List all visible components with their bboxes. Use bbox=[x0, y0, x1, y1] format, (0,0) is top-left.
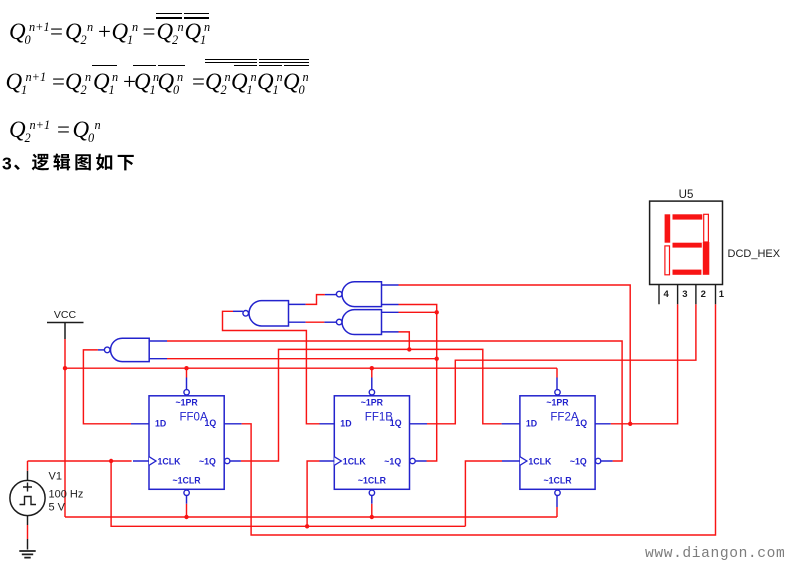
wire U4 input stubs bbox=[382, 312, 399, 332]
wire FF0A Q to U5 pin 1 (node 0Q) bbox=[242, 304, 716, 535]
svg-text:~1CLR: ~1CLR bbox=[173, 476, 202, 486]
junction ~1Q net at U4 input bbox=[435, 310, 439, 314]
equation 2: Q1^n+1 = Q2^n NOT-Q1^n + NOT-Q1^n NOT-Q0^n = big NAND form bbox=[0, 0, 786, 1]
wire FF2A clear riser bbox=[556, 507, 558, 517]
svg-text:DCD_HEX: DCD_HEX bbox=[728, 248, 781, 260]
svg-text:1CLK: 1CLK bbox=[343, 456, 367, 466]
wire FF2A Q to U5 pin 3 (node 2Q) bbox=[611, 304, 678, 424]
flip-flop FF1B bbox=[334, 390, 415, 496]
svg-text:~1PR: ~1PR bbox=[175, 398, 198, 408]
svg-text:5 V: 5 V bbox=[49, 502, 66, 514]
segment E (off outline) bbox=[665, 246, 670, 275]
voltage source V1 100 Hz 5 V bbox=[10, 471, 83, 550]
junction FF1B clear bbox=[370, 515, 374, 519]
svg-text:1Q: 1Q bbox=[390, 418, 402, 428]
wire U3 input B / U4 input A / ~1Q net vertical bbox=[399, 305, 437, 462]
svg-text:1Q: 1Q bbox=[205, 418, 217, 428]
junction FF0A preset bbox=[184, 366, 188, 370]
svg-text:1: 1 bbox=[719, 289, 725, 300]
junction 2Q bbox=[628, 422, 632, 426]
svg-text:2: 2 bbox=[701, 289, 706, 300]
svg-text:VCC: VCC bbox=[54, 309, 77, 321]
svg-text:4: 4 bbox=[664, 289, 670, 300]
segment A (on) bbox=[673, 214, 703, 219]
wire clock rail bbox=[111, 461, 502, 526]
wire U2 input stubs bbox=[289, 304, 306, 322]
svg-text:1CLK: 1CLK bbox=[158, 456, 182, 466]
NAND gate U4 (bottom right) bbox=[336, 310, 381, 335]
svg-text:~1CLR: ~1CLR bbox=[543, 476, 572, 486]
wire FF1B pin stubs bbox=[320, 378, 428, 504]
svg-text:1CLK: 1CLK bbox=[528, 456, 552, 466]
flip-flop FF0A bbox=[149, 390, 230, 496]
wire U2 input A from U3 output bbox=[306, 295, 325, 305]
wire V1 to FF0A clock bbox=[28, 460, 132, 462]
junction FF0A clear bbox=[184, 515, 188, 519]
wire FF1B clear riser bbox=[371, 504, 373, 517]
ground bbox=[19, 551, 35, 558]
junction ~0Q net bbox=[407, 347, 411, 351]
seven-segment display U5 DCD_HEX bbox=[650, 189, 781, 285]
power symbol VCC bbox=[47, 309, 84, 339]
junction VCC rail bbox=[63, 366, 67, 370]
segment C (on) bbox=[703, 242, 710, 275]
svg-text:~1CLR: ~1CLR bbox=[358, 476, 387, 486]
wire U1 output to FF0A D bbox=[83, 350, 131, 424]
wire U1 input rail A (from FF2A ~Q) bbox=[167, 341, 622, 461]
U5 pin stubs and numbers bbox=[659, 285, 725, 305]
NAND gate U3 (mirrored, inputs 2Q and ~2Q net) bbox=[336, 282, 381, 307]
svg-text:V1: V1 bbox=[49, 471, 62, 483]
segment D (on) bbox=[673, 270, 702, 275]
svg-text:~1Q: ~1Q bbox=[199, 456, 216, 466]
wire U2 input B from U4 output bbox=[306, 321, 325, 323]
equation 3: Q2^n+1 = Q0^n bbox=[0, 0, 786, 1]
svg-text:~1Q: ~1Q bbox=[384, 456, 401, 466]
wire U2 output stub bbox=[233, 310, 243, 312]
wire U3 input stubs bbox=[382, 285, 399, 305]
segment B (off outline) bbox=[704, 214, 709, 242]
wire FF1B preset riser bbox=[371, 368, 373, 377]
segment F (on) bbox=[665, 214, 671, 242]
wire U2 output to FF1B D bbox=[223, 311, 320, 424]
segment G (on) bbox=[673, 243, 702, 248]
wire U1 input stubs bbox=[149, 341, 167, 359]
svg-text:1D: 1D bbox=[340, 418, 351, 428]
watermark www.diangon.com bbox=[645, 546, 785, 562]
wire U4 input B to ~0Q net bbox=[399, 332, 410, 350]
svg-text:~1Q: ~1Q bbox=[570, 456, 587, 466]
svg-text:1D: 1D bbox=[526, 418, 537, 428]
NAND gate U2 (mirrored, output left, feeds FF1B D) bbox=[243, 301, 289, 326]
svg-text:U5: U5 bbox=[679, 189, 694, 201]
junction ~1Q net at U1 input rail bbox=[435, 357, 439, 361]
junction clock riser bbox=[109, 459, 113, 463]
wire U3 input A to FF2A Q (node 2Q) bbox=[399, 285, 631, 424]
wire V1 top lead bbox=[27, 461, 29, 539]
svg-text:~1PR: ~1PR bbox=[361, 398, 384, 408]
wire FF2A pin stubs bbox=[502, 378, 613, 508]
NAND gate U1 (mirrored, output left to FF0A D) bbox=[104, 338, 149, 361]
flip-flop FF2A bbox=[520, 390, 601, 496]
svg-text:1D: 1D bbox=[155, 418, 166, 428]
svg-text:100 Hz: 100 Hz bbox=[49, 489, 84, 501]
svg-text:~1PR: ~1PR bbox=[546, 398, 569, 408]
svg-text:1Q: 1Q bbox=[575, 418, 587, 428]
wire FF1B Q to U5 pin 2 (node 1Q) bbox=[427, 304, 696, 424]
svg-text:3: 3 bbox=[682, 289, 687, 300]
junction clock FF1B bbox=[305, 524, 309, 528]
heading: 3. logic diagram follows (Chinese) bbox=[0, 0, 160, 180]
wire ~0Q net: FF0A ~Q to FF2A D bbox=[241, 349, 502, 461]
wire FF0A preset riser bbox=[186, 368, 188, 377]
junction FF1B preset bbox=[370, 366, 374, 370]
equation 1: Q0^n+1 = Q2^n + Q1^n = NOT(NOT-Q2^n * NOT-Q1^n) bbox=[0, 0, 786, 1]
wire ~CLR rail (bottom, to flip-flop clear pins) bbox=[65, 516, 557, 518]
wire FF0A pin stubs bbox=[131, 378, 242, 504]
wire FF0A clear riser bbox=[186, 504, 188, 517]
wire VCC stem to CLR rail bbox=[64, 339, 66, 517]
wire U1 output stub bbox=[98, 349, 105, 351]
wire VCC to preset rail bbox=[65, 368, 557, 377]
wire U1 input rail B (from ~1Q net) bbox=[167, 358, 437, 360]
